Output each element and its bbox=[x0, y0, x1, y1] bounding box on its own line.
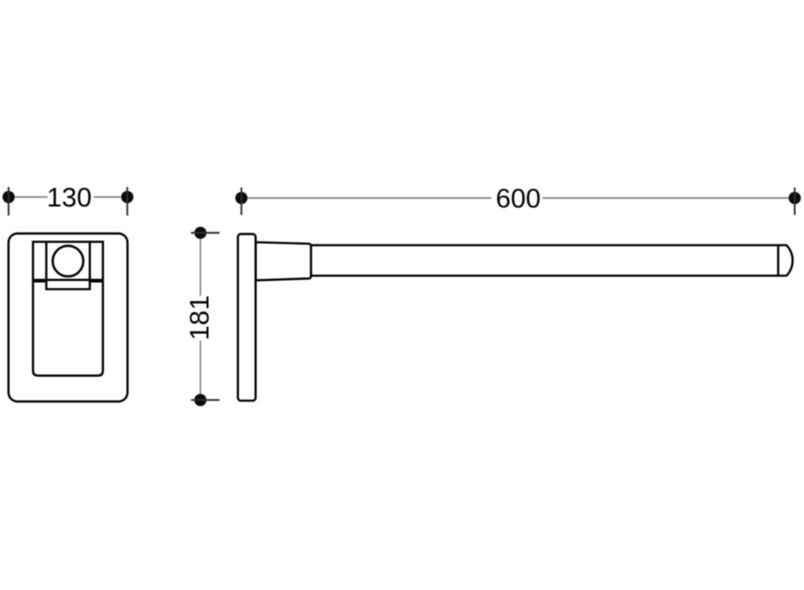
side view: rail bar with rounded end cap bbox=[311, 245, 793, 276]
dimension 600: leader line left segment bbox=[248, 197, 492, 199]
svg-text:181: 181 bbox=[185, 295, 215, 340]
dimension 181: leader line top segment bbox=[199, 239, 201, 296]
side view: tapered adapter cone bbox=[256, 242, 311, 280]
front view: mounting bracket outline bbox=[33, 242, 103, 280]
dimension 130: left extension tick bbox=[8, 187, 10, 216]
front view: bracket tab outline bbox=[46, 278, 90, 289]
dimension 600: left extension tick bbox=[240, 188, 242, 216]
dimension 130: right terminal dot bbox=[121, 191, 133, 203]
front view: fastener housing right edge bbox=[89, 242, 91, 280]
dimension 130: leader line right segment bbox=[94, 196, 122, 198]
dimension 600: left terminal dot bbox=[235, 192, 247, 204]
dimension 181: leader line bottom segment bbox=[199, 341, 201, 395]
dimension 600: right extension tick bbox=[794, 188, 796, 216]
front view: wall plate outline bbox=[9, 234, 128, 402]
front view: bracket tab fill mask bbox=[45, 278, 91, 291]
dimension 181: bottom terminal dot bbox=[194, 394, 206, 406]
dimension 181: top extension tick bbox=[191, 232, 220, 234]
side view: end cap joint line bbox=[777, 245, 779, 276]
dimension 181: top terminal dot bbox=[194, 227, 206, 239]
side view: wall plate profile bbox=[238, 234, 256, 401]
dimension 130: leader line left segment bbox=[15, 196, 48, 198]
svg-text:130: 130 bbox=[47, 182, 92, 212]
dimension 130: left terminal dot bbox=[3, 191, 15, 203]
svg-text:600: 600 bbox=[496, 183, 541, 213]
dimension 130: right extension tick bbox=[126, 187, 128, 216]
front view: rail body face bbox=[33, 281, 103, 375]
dimension 600: right terminal dot bbox=[789, 192, 801, 204]
dimension 600: leader line right segment bbox=[543, 197, 789, 199]
front view: fastener circle bbox=[53, 246, 84, 277]
front view: fastener housing left edge bbox=[45, 242, 47, 280]
dimension 181: bottom extension tick bbox=[191, 399, 220, 401]
